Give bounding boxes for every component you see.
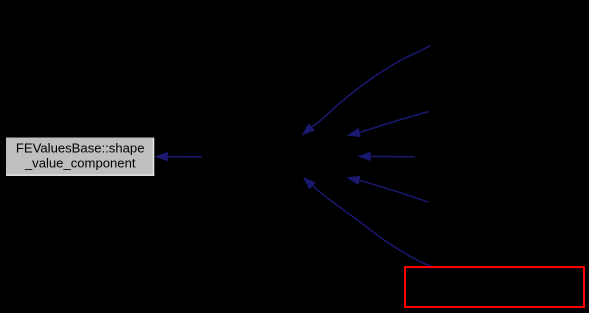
- svg-text:_value_component: _value_component: [24, 155, 136, 170]
- svg-text:FEValuesBase::shape: FEValuesBase::shape: [16, 141, 145, 156]
